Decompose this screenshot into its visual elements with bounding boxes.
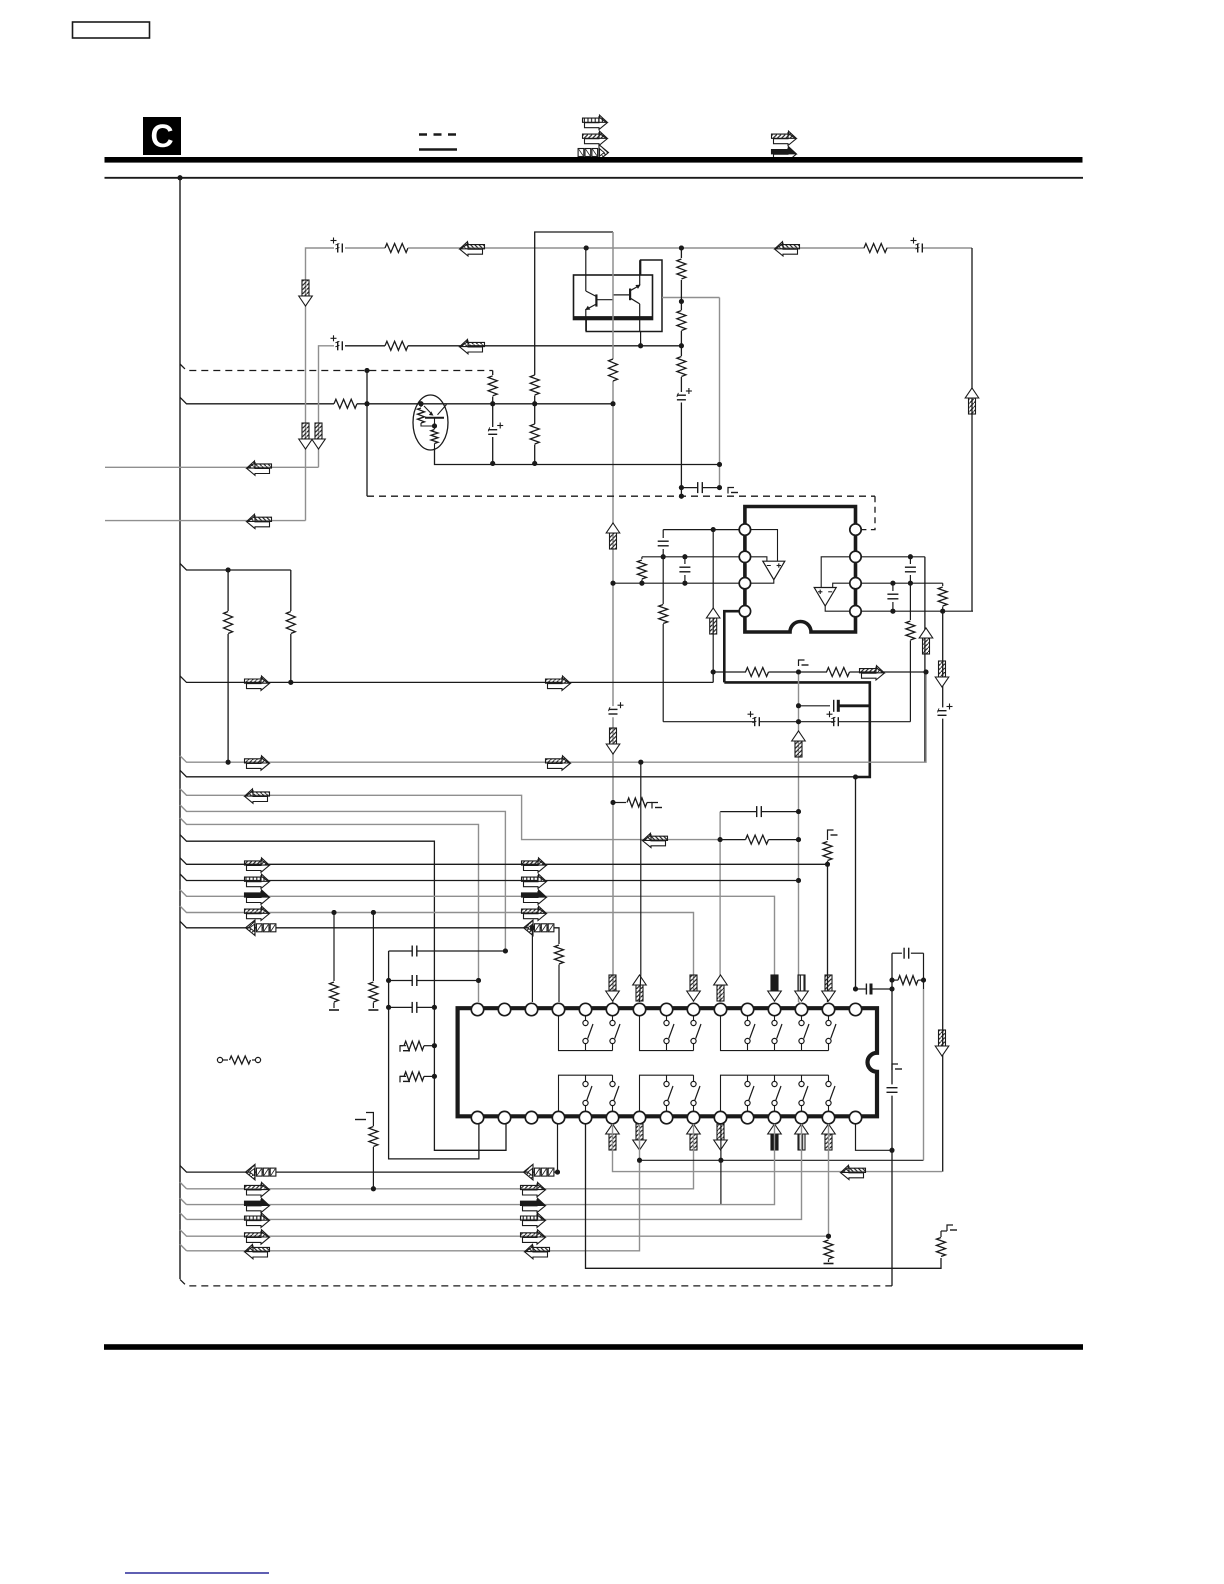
transistor Q2 bbox=[629, 289, 631, 301]
node x827/F12 bbox=[825, 862, 830, 867]
capacitor C-pol x492 bbox=[492, 404, 494, 427]
arrow right F5 b bbox=[548, 678, 571, 691]
wire pin8 line bbox=[862, 610, 973, 612]
pin U2 top 1 bbox=[471, 1003, 483, 1015]
capacitor C-pol x681 bbox=[677, 394, 686, 396]
wire y1160 link bbox=[640, 1159, 924, 1161]
node F19/x373 bbox=[371, 1186, 376, 1191]
arrow left F22 a bbox=[245, 1244, 270, 1258]
wire x972 vertical bbox=[971, 248, 973, 611]
arrow U below pin x693 bbox=[687, 1124, 701, 1150]
wire cap3 line bbox=[389, 1006, 413, 1008]
arrow down x318 bbox=[315, 423, 322, 439]
arrow right F23 a bbox=[247, 1232, 270, 1245]
switch top x693 bbox=[693, 1016, 695, 1021]
wire sw bracket B1 bbox=[559, 1075, 613, 1110]
arrow right F14 b bbox=[524, 892, 547, 905]
node x892/y980 bbox=[890, 978, 895, 983]
wire x926 vertical bbox=[924, 557, 926, 762]
wire x923 upper bbox=[923, 953, 925, 989]
wire y487 bbox=[681, 487, 697, 489]
arrow U above pin x720 bbox=[714, 975, 728, 1001]
arrow right y672 bbox=[862, 668, 885, 681]
pin U2 bottom 9 bbox=[687, 1111, 699, 1123]
page frame box top-left bbox=[73, 22, 150, 38]
node lad2/x478 bbox=[476, 978, 481, 983]
capacitor C-pol y721 a bbox=[754, 717, 756, 726]
arrow left F8 a bbox=[245, 789, 270, 803]
wire x585 low bbox=[586, 1124, 942, 1269]
wire x639 up bbox=[640, 762, 641, 1002]
node y556/x684 bbox=[682, 554, 687, 559]
wire fan F2 bbox=[180, 397, 334, 404]
node y1160/x639 bbox=[637, 1158, 642, 1163]
wire gray input y467 bbox=[105, 466, 319, 468]
wire y705 bbox=[799, 705, 831, 707]
node x229/F6 bbox=[226, 760, 231, 765]
arrow right F15 a bbox=[247, 908, 270, 921]
potentiometer o-w-o bbox=[217, 1057, 222, 1062]
capacitor C-pol y345 bbox=[337, 341, 339, 350]
arrow right F20 a bbox=[247, 1200, 270, 1213]
legend arrow hatched bbox=[585, 133, 608, 146]
wire RC loop top bbox=[892, 952, 902, 954]
arrow up x713 bbox=[706, 608, 720, 634]
pin U2 top 13 bbox=[795, 1003, 807, 1015]
node F3/x229 bbox=[226, 568, 231, 573]
wire pin4 thick bbox=[724, 611, 739, 682]
node x492/F2 bbox=[490, 401, 495, 406]
ground step RgA bbox=[400, 1046, 406, 1052]
node y583/x911 bbox=[908, 581, 913, 586]
pin U1 left 4 bbox=[739, 606, 750, 617]
node x492/y463 bbox=[490, 461, 495, 466]
capacitor C lad3 bbox=[411, 1002, 413, 1013]
wire Q2 emitter bbox=[639, 304, 641, 332]
wire sw bracket T2 bbox=[640, 1016, 694, 1051]
arrow left F8 b bbox=[643, 833, 668, 847]
capacitor C-pol y248 right bbox=[917, 244, 919, 253]
arrow right F5 a bbox=[247, 678, 270, 691]
wire y840 left bbox=[720, 839, 746, 841]
wire fan F5 tail bbox=[712, 672, 714, 682]
pin U2 top 4 bbox=[552, 1003, 564, 1015]
node Q3 base bbox=[419, 401, 424, 406]
resistor R y672 a bbox=[746, 668, 769, 677]
pin U2 bottom 14 bbox=[822, 1111, 834, 1123]
footer blue underline bbox=[125, 1572, 269, 1574]
node F16/x532 bbox=[530, 925, 535, 930]
wire x774 low bbox=[187, 1124, 775, 1205]
resistor Q3 base R bbox=[420, 404, 422, 407]
node F2/x367 bbox=[365, 401, 370, 406]
top thick rule bbox=[105, 157, 1083, 163]
resistor R y345 bbox=[385, 341, 408, 350]
resistor Rx941 bbox=[937, 1238, 946, 1257]
arrow D above pin x801 bbox=[798, 975, 805, 991]
wire x720 mid vertical bbox=[719, 812, 721, 1002]
arrow right F12 b bbox=[524, 860, 547, 873]
node pin1/x713 bbox=[711, 527, 716, 532]
pin U2 top 3 bbox=[525, 1003, 537, 1015]
capacitor C y487 bbox=[697, 482, 699, 493]
wire fan F5 y682 bbox=[180, 676, 713, 683]
node y583/x684 bbox=[682, 581, 687, 586]
wire gray input y520 bbox=[105, 520, 306, 522]
arrow right F13 b bbox=[524, 876, 547, 889]
node x681/y345 bbox=[679, 343, 684, 348]
arrow U above pin x639 bbox=[633, 975, 647, 1001]
arrow down x942 low bbox=[939, 1030, 946, 1046]
legend dashed line bbox=[419, 133, 457, 136]
node y583/x892 bbox=[890, 581, 895, 586]
capacitor C y705 thick bbox=[833, 700, 835, 712]
wire bus chamfer F22 bbox=[180, 1244, 187, 1251]
resistor RgB bbox=[400, 1075, 403, 1077]
wire fan F8 y795 bbox=[180, 789, 720, 840]
capacitor C-pol x613 low bbox=[609, 708, 618, 710]
wire y813 bbox=[720, 811, 757, 813]
pin U1 left 3 bbox=[739, 578, 750, 589]
section label C box bbox=[143, 117, 181, 155]
wire x798 stub bbox=[799, 1002, 802, 1003]
resistor R y248 right bbox=[864, 244, 887, 253]
arrow left y345 bbox=[460, 339, 485, 353]
wire x923 vertical bbox=[923, 989, 925, 1160]
arrow right F23 b bbox=[523, 1232, 546, 1245]
wire x892 vertical bbox=[891, 953, 893, 1084]
capacitor C-pol x942 bbox=[938, 710, 947, 712]
bottom thick rule bbox=[104, 1344, 1083, 1350]
resistor Rx681-3 bbox=[680, 346, 682, 356]
node x534/F2 bbox=[532, 401, 537, 406]
wire main bus vertical bbox=[179, 178, 181, 1279]
wire bus chamfer F20 bbox=[180, 1198, 187, 1205]
arrow left F22 b bbox=[525, 1244, 550, 1258]
node x534/y463 bbox=[532, 461, 537, 466]
transistor Q1 bbox=[595, 294, 597, 306]
arrow right F19 a bbox=[247, 1184, 270, 1197]
arrow up x613 bbox=[606, 523, 620, 549]
arrow left F16 b bbox=[524, 920, 534, 936]
transistor pair box inner bbox=[574, 275, 653, 320]
pin U2 top 9 bbox=[687, 1003, 699, 1015]
wire fan F3 bbox=[180, 564, 291, 571]
node RgB/x434 bbox=[432, 1074, 437, 1079]
resistor Rx534-2 bbox=[534, 404, 536, 424]
wire fan F12 y864 bbox=[180, 858, 828, 865]
arrow right F13 a bbox=[247, 876, 270, 889]
arrow left y248 right bbox=[775, 242, 800, 256]
pin U2 bottom 2 bbox=[498, 1111, 510, 1123]
wire fan F15 y913 bbox=[180, 906, 694, 1002]
legend arrow checkered bbox=[578, 145, 608, 161]
wire x942 vertical bbox=[942, 611, 944, 707]
arrow U below pin x828 bbox=[822, 1124, 836, 1150]
node lad3/x388 bbox=[386, 1005, 391, 1010]
resistor Rx641 bbox=[641, 557, 643, 559]
wire y248 a bbox=[345, 247, 385, 249]
arrow right F21 b bbox=[523, 1215, 546, 1228]
arrow left y248 bbox=[460, 242, 485, 256]
capacitor C x892 bbox=[892, 583, 894, 591]
arrow U below pin x774 bbox=[768, 1124, 782, 1150]
capacitor C x892 low bbox=[887, 1087, 898, 1089]
wire pin1 line bbox=[663, 529, 739, 531]
pin U2 top 6 bbox=[606, 1003, 618, 1015]
pin U2 top 2 bbox=[498, 1003, 510, 1015]
arrow D below pin x639 bbox=[636, 1124, 643, 1140]
node y487/x719 bbox=[717, 485, 722, 490]
node x613/y802 bbox=[611, 800, 616, 805]
wire x612 stub bbox=[612, 1002, 615, 1003]
ground step x941 bbox=[947, 1225, 953, 1231]
ground step y672 bbox=[799, 660, 805, 666]
wire F18 y1172 bbox=[180, 1166, 558, 1173]
wire x713 vertical bbox=[712, 530, 714, 672]
legend arrow striped bbox=[585, 117, 608, 130]
wire dashed y496 bbox=[367, 495, 875, 497]
switch top x585 bbox=[585, 1016, 587, 1021]
ground bar x334 bbox=[329, 1009, 339, 1011]
node lad3/x434 bbox=[432, 1005, 437, 1010]
wire x557 low bbox=[557, 1124, 559, 1172]
arrow D above pin x774 bbox=[771, 975, 778, 991]
wire sw bracket B3 bbox=[721, 1075, 829, 1110]
pin U2 bottom 1 bbox=[471, 1111, 483, 1123]
pin U1 left 2 bbox=[739, 551, 750, 562]
node pin6/x910 bbox=[908, 554, 913, 559]
wire x681 seg bbox=[680, 291, 682, 310]
legend arrow hatched 2 bbox=[774, 133, 797, 146]
wire dashed fan F1 bbox=[180, 364, 493, 371]
arrow down x613 low bbox=[610, 728, 617, 744]
arrow right F12 a bbox=[247, 860, 270, 873]
node lad2/x388 bbox=[386, 978, 391, 983]
arrow D above pin x612 bbox=[609, 975, 616, 991]
top thin rule bbox=[105, 177, 1084, 179]
resistor Rx827 bbox=[827, 836, 829, 840]
node F8/x719 bbox=[718, 837, 723, 842]
wire x719 vertical bbox=[719, 298, 721, 487]
node y721/x798 bbox=[796, 719, 801, 724]
legend arrow solid bbox=[774, 149, 797, 162]
arrow U below pin x612 bbox=[606, 1124, 620, 1150]
wire fan F9 y811 bbox=[180, 805, 505, 951]
pin U2 top 15 bbox=[849, 1003, 861, 1015]
node lad1/x505 bbox=[503, 949, 508, 954]
wire fan F7 y777 bbox=[180, 770, 856, 777]
wire x798 vertical bbox=[798, 672, 800, 1002]
wire fan F11 y841 bbox=[180, 835, 506, 1151]
switch bottom x585 bbox=[585, 1075, 587, 1081]
node y813/x798 bbox=[796, 809, 801, 814]
wire y672 bbox=[713, 671, 746, 673]
arrow D above pin x693 bbox=[690, 975, 697, 991]
resistor Rx291 bbox=[290, 570, 292, 611]
resistor Rx942 up bbox=[942, 583, 944, 586]
resistor R y840 bbox=[746, 835, 769, 844]
wire y345 b bbox=[408, 345, 681, 347]
pin U2 bottom 4 bbox=[552, 1111, 564, 1123]
node x663/y556 bbox=[661, 554, 666, 559]
node y672/x713 bbox=[711, 670, 716, 675]
switch top x612 bbox=[612, 1016, 614, 1021]
wire y988 link bbox=[856, 988, 867, 990]
resistor R-dash (x492) bbox=[492, 371, 494, 376]
resistor Rx372 bbox=[372, 1118, 374, 1126]
arrow up x926 bbox=[919, 628, 933, 654]
node x855/y989 bbox=[853, 987, 858, 992]
wire x801 low bbox=[187, 1124, 802, 1220]
arrow down x305 lower bbox=[302, 423, 309, 439]
wire A2 out to pin8 bbox=[825, 606, 849, 611]
switch bottom x612 bbox=[612, 1075, 614, 1081]
wire fan F14 y896 bbox=[180, 890, 775, 1002]
node x892/y1150 bbox=[890, 1148, 895, 1153]
resistor Rx559 bbox=[555, 945, 564, 964]
capacitor C y813 bbox=[756, 806, 758, 817]
arrow left F18 b bbox=[524, 1164, 534, 1180]
resistor R y248 bbox=[385, 244, 408, 253]
node F15/x334 bbox=[332, 910, 337, 915]
op-amp A1 bbox=[763, 561, 785, 580]
capacitor C lad1 bbox=[411, 946, 413, 957]
wire x693 low bbox=[187, 1124, 694, 1189]
wire A2 in+ from pin6 bbox=[821, 557, 849, 588]
resistor Rx681-2 bbox=[677, 311, 686, 331]
ground step x827 bbox=[828, 830, 834, 836]
arrow up x972 bbox=[965, 388, 979, 414]
wire pin3 line bbox=[613, 582, 739, 584]
pin U2 bottom 5 bbox=[579, 1111, 591, 1123]
pin U2 bottom 7 bbox=[633, 1111, 645, 1123]
wire fan F16 y928 bbox=[180, 921, 559, 944]
switch bottom x828 bbox=[828, 1075, 830, 1081]
capacitor C x684 bbox=[684, 557, 686, 564]
arrow right F20 b bbox=[523, 1200, 546, 1213]
pin U2 bottom 15 bbox=[849, 1111, 861, 1123]
node RgA/x434 bbox=[432, 1043, 437, 1048]
arrow down x305 upper bbox=[302, 280, 309, 296]
node y777/x855 bbox=[853, 775, 858, 780]
switch bottom x801 bbox=[801, 1075, 803, 1081]
node F1/x367 bbox=[365, 368, 370, 373]
ground step x892 bbox=[892, 1064, 898, 1070]
wire y248 b bbox=[408, 247, 865, 249]
node y705/x798 bbox=[796, 703, 801, 708]
pin U2 top 14 bbox=[822, 1003, 834, 1015]
ground step x652 bbox=[652, 803, 658, 809]
switch bottom x666 bbox=[666, 1075, 668, 1081]
pin U2 bottom 13 bbox=[795, 1111, 807, 1123]
capacitor C-pol y248 bbox=[337, 244, 339, 253]
resistor Rx613 bbox=[609, 359, 618, 381]
pin U2 top 10 bbox=[714, 1003, 726, 1015]
node y248/x681 bbox=[679, 246, 684, 251]
pin U2 bottom 6 bbox=[606, 1111, 618, 1123]
resistor R to gnd x613 bbox=[613, 802, 626, 804]
wire x827 vertical bbox=[827, 864, 829, 1002]
wire x388 vertical bbox=[389, 951, 479, 1159]
wire A1 out to pin3 bbox=[751, 580, 774, 584]
ground step x372 top bbox=[366, 1113, 373, 1119]
wire x613 vertical bbox=[612, 232, 614, 359]
capacitor C-pol y721 b bbox=[833, 717, 835, 726]
arrow down x942 up bbox=[939, 661, 946, 677]
pin U1 right 5 bbox=[850, 524, 861, 535]
switch IC U2 body bbox=[458, 1008, 877, 1116]
resistor Rx663 low bbox=[662, 557, 664, 604]
node x613/y583 bbox=[611, 581, 616, 586]
node x892/y988 bbox=[890, 987, 895, 992]
node x923/y980 bbox=[921, 978, 926, 983]
wire collector Q1 bbox=[585, 248, 587, 291]
switch top x666 bbox=[666, 1016, 668, 1021]
ground bar x373 bbox=[368, 1009, 378, 1011]
wire y345 a bbox=[345, 345, 385, 347]
node x557/y1172 bbox=[555, 1170, 560, 1175]
capacitor C y988 bbox=[865, 984, 867, 995]
switch bottom x747 bbox=[747, 1075, 749, 1081]
switch top x801 bbox=[801, 1016, 803, 1021]
wire gray loop A bbox=[319, 346, 335, 468]
pin U1 right 8 bbox=[850, 606, 861, 617]
wire y840 right bbox=[769, 839, 799, 841]
arrow up x798 bbox=[792, 731, 806, 757]
ground step y487 bbox=[728, 488, 734, 494]
pin U2 top 8 bbox=[660, 1003, 672, 1015]
pin U2 bottom 11 bbox=[741, 1111, 753, 1123]
wire x367 vertical bbox=[366, 371, 368, 497]
wire pin6 line bbox=[862, 556, 925, 558]
node Q3 emitter bbox=[432, 424, 437, 429]
wire thick path bbox=[724, 682, 870, 777]
node y840/x798 bbox=[796, 837, 801, 842]
node F15/x373 bbox=[371, 910, 376, 915]
switch top x828 bbox=[828, 1016, 830, 1021]
node bus junction bbox=[178, 175, 183, 180]
wire sw bracket B2 bbox=[640, 1075, 694, 1110]
wire gray loop B horiz bbox=[306, 248, 335, 521]
pin U1 left 1 bbox=[739, 524, 750, 535]
ground bar x828 bbox=[824, 1263, 834, 1265]
pin U2 bottom 3 bbox=[525, 1111, 537, 1123]
pin U2 bottom 12 bbox=[768, 1111, 780, 1123]
wire Q2 collector bbox=[639, 260, 641, 285]
resistor Q3 emitter R bbox=[434, 426, 436, 429]
arrow left y1172 right bbox=[841, 1165, 866, 1179]
arrow D below pin x720 bbox=[717, 1124, 724, 1140]
node F23/x828 bbox=[826, 1234, 831, 1239]
node x291/F5 bbox=[288, 680, 293, 685]
capacitor C loop bbox=[903, 948, 905, 959]
node x681 mid bbox=[679, 299, 684, 304]
switch bottom x693 bbox=[693, 1075, 695, 1081]
resistor Rx828 low bbox=[828, 1236, 830, 1239]
wire fan F10 y824 bbox=[180, 818, 479, 1002]
arrow right F6 a bbox=[247, 758, 270, 771]
node x681/dashed bbox=[679, 494, 684, 499]
wire x639 low bbox=[187, 1124, 640, 1251]
wire cap2 line bbox=[389, 980, 413, 982]
pin U2 bottom 8 bbox=[660, 1111, 672, 1123]
transistor oval Q3 bbox=[413, 395, 448, 450]
wire x720 low bbox=[720, 1124, 722, 1205]
capacitor C x910 bbox=[909, 557, 911, 564]
switch top x774 bbox=[774, 1016, 776, 1021]
arrow left y467 bbox=[247, 461, 272, 475]
